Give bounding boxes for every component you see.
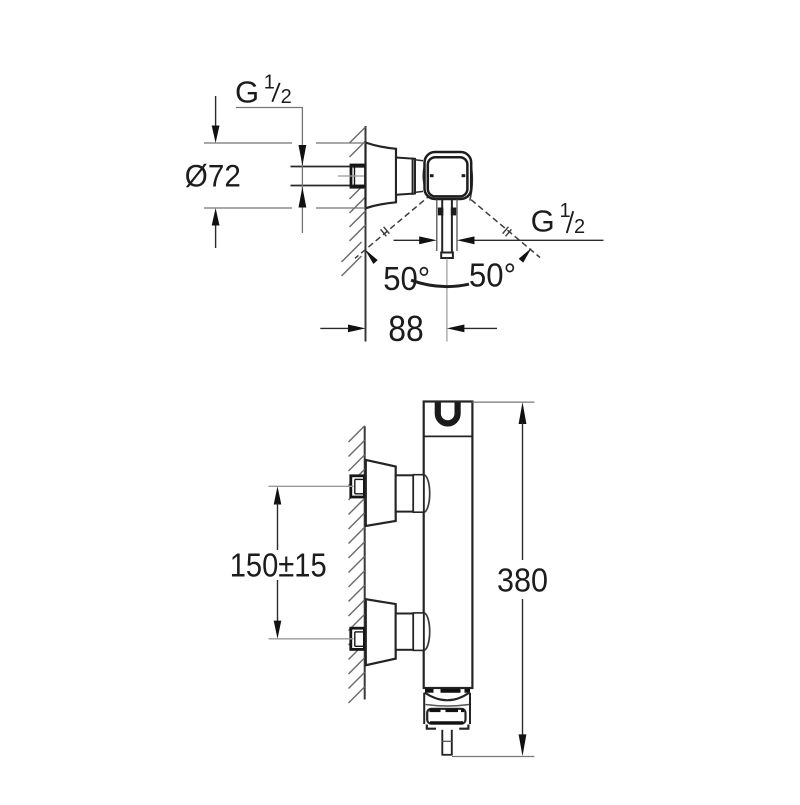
G1/2 leader lines (236, 108, 302, 234)
bottom union: nut square (351, 628, 365, 649)
dimension 150+-15 extension lines (269, 485, 354, 487)
cap rim brackets (427, 725, 436, 729)
pipe centerline (338, 175, 364, 177)
swing dashed line left (355, 188, 439, 258)
handle inner face (428, 157, 468, 196)
wall hatching (top view) (342, 127, 366, 276)
dimension 88 (320, 325, 497, 333)
union nut square (in wall) (351, 165, 366, 187)
handle outer (rounded square knob) (425, 152, 472, 199)
column top cross line (424, 435, 473, 437)
svg-text:1: 1 (264, 72, 275, 94)
mousseur (427, 709, 465, 724)
boss top (424, 475, 430, 512)
svg-text:50°: 50° (469, 256, 516, 293)
svg-text:Ø72: Ø72 (185, 158, 241, 194)
G1/2 arrow down (299, 145, 307, 166)
outlet stem below handle (437, 200, 457, 259)
angle arc bottom (411, 280, 469, 286)
dia 72 extension lines (204, 143, 366, 208)
swing dashed line right (457, 188, 541, 258)
angle arrowhead left (365, 249, 378, 264)
dimension G1/2 top-left label (235, 72, 292, 110)
dimension 150+-15 (274, 486, 282, 639)
supply pipe (291, 167, 354, 186)
thread mark right (503, 227, 512, 237)
wall (top view) (365, 126, 367, 342)
handle inner ticks (430, 174, 434, 177)
outlet cap seam band (425, 689, 470, 693)
top union: ring (413, 475, 423, 513)
wall hatching (bottom view) (349, 426, 365, 703)
handle side arcs (423, 161, 426, 190)
bottom union: escutcheon cone (366, 599, 396, 665)
outlet cap lower curve (426, 705, 470, 707)
hand shower hook (438, 403, 458, 424)
top union: cylinder (396, 475, 414, 511)
label G1/2 right (531, 200, 586, 238)
thread mark left (381, 227, 390, 237)
svg-text:380: 380 (497, 562, 548, 599)
stem centerline (446, 259, 448, 342)
svg-text:G: G (531, 203, 555, 238)
hose nipple (442, 730, 453, 756)
svg-text:G: G (235, 75, 259, 110)
outlet cap sides (423, 693, 425, 724)
svg-text:50°: 50° (383, 260, 430, 297)
top union: escutcheon cone (366, 460, 396, 526)
bottom union: ring (413, 613, 423, 651)
escutcheon cone (side view) (366, 143, 397, 209)
svg-text:2: 2 (574, 216, 585, 238)
outlet cap concave curve (425, 693, 470, 701)
dimension 380 extension lines (472, 401, 534, 403)
svg-text:1: 1 (560, 200, 571, 222)
bottom union: cylinder (396, 614, 414, 650)
dimension 380 (519, 402, 527, 756)
svg-text:2: 2 (281, 86, 292, 108)
dimension G1/2 right (outlet thread) (394, 236, 604, 244)
G1/2 arrow up (299, 187, 307, 208)
top union: nut square (351, 476, 365, 497)
svg-text:88: 88 (388, 308, 424, 349)
dia 72 dimension lines + arrows (212, 96, 220, 248)
wall (bottom view) (364, 426, 366, 699)
angle arrowhead right (519, 248, 532, 263)
column body (424, 402, 473, 689)
valve body cylinder (396, 158, 415, 195)
boss bottom (424, 613, 430, 650)
svg-text:150±15: 150±15 (230, 547, 327, 584)
